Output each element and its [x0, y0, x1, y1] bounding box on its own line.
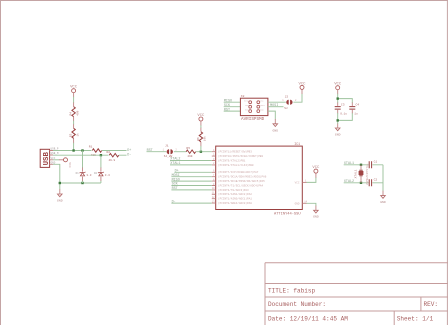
svg-text:499: 499	[187, 155, 192, 158]
svg-text:(PCINT9/XTAL2)PB1: (PCINT9/XTAL2)PB1	[218, 158, 246, 162]
node junction rail/D1	[81, 182, 83, 184]
svg-text:XTAL2: XTAL2	[344, 180, 354, 184]
svg-text:(PCINT8/XTAL1/CLKI)PB0: (PCINT8/XTAL1/CLKI)PB0	[218, 163, 254, 167]
svg-text:MISO: MISO	[172, 178, 180, 182]
wire R5 to IC pin 4	[196, 151, 212, 153]
wire USB GND down	[53, 164, 60, 189]
svg-text:0.1u: 0.1u	[340, 112, 347, 115]
svg-text:XTAL2: XTAL2	[170, 158, 180, 162]
svg-text:(PCINT6/OC1A/SDA/MOSI/ADC6)PA6: (PCINT6/OC1A/SDA/MOSI/ADC6)PA6	[218, 175, 267, 179]
svg-text:SJ: SJ	[284, 107, 288, 110]
node junction xtal top	[360, 164, 362, 166]
svg-text:R6: R6	[197, 137, 200, 141]
jumper J2	[282, 95, 297, 110]
supply VCC (caps)	[334, 83, 342, 90]
resistor R6	[197, 132, 207, 142]
svg-text:VCC: VCC	[260, 100, 264, 103]
svg-text:R3: R3	[70, 133, 73, 137]
capacitor C2	[369, 178, 378, 186]
supply VCC (USB pin 3)	[53, 158, 72, 168]
net label MISO + wire	[171, 178, 211, 182]
wire J2 to VCC	[293, 94, 302, 103]
header X2 AVRISPSMD	[240, 95, 268, 122]
node junction xtal bottom	[360, 182, 362, 184]
USB connector X1	[40, 149, 51, 167]
op IC1 box	[216, 142, 303, 216]
svg-text:TITLE: fabisp: TITLE: fabisp	[268, 287, 316, 294]
svg-text:D-: D-	[127, 153, 131, 157]
svg-text:(PCINT3/T0/ADC3)PA3: (PCINT3/T0/ADC3)PA3	[218, 188, 249, 192]
svg-text:2: 2	[295, 99, 297, 102]
svg-text:GND: GND	[260, 108, 264, 111]
svg-text:(PCINT11/RESET/DW)PB3: (PCINT11/RESET/DW)PB3	[218, 150, 252, 154]
svg-text:GND: GND	[273, 128, 279, 132]
svg-text:49.9: 49.9	[109, 159, 116, 162]
resistor R5	[186, 147, 195, 158]
svg-text:MOSI: MOSI	[270, 104, 278, 108]
capacitor C4	[349, 104, 360, 116]
svg-text:1k: 1k	[75, 133, 79, 137]
svg-text:(PCINT1/AIN0/ADC1)PA1: (PCINT1/AIN0/ADC1)PA1	[218, 197, 252, 201]
wire ground rail	[60, 182, 101, 184]
svg-text:C4: C4	[356, 104, 360, 107]
svg-text:(PCINT0/AREF/ADC0)PA0: (PCINT0/AREF/ADC0)PA0	[218, 201, 252, 205]
svg-text:(PCINT2/AIN1/ADC2)PA2: (PCINT2/AIN1/ADC2)PA2	[218, 192, 252, 196]
wire D2 branch	[100, 155, 102, 183]
net label XTAL2 + wire	[170, 158, 212, 162]
svg-text:10k: 10k	[203, 136, 207, 141]
net label XTAL1 + wire	[170, 162, 212, 166]
wire USB_P net	[53, 150, 127, 152]
svg-text:(PCINT5/OC1B/MISO/DO/ADC5)PA5: (PCINT5/OC1B/MISO/DO/ADC5)PA5	[218, 179, 265, 183]
svg-text:Document Number:: Document Number:	[268, 301, 326, 308]
wire D1 branch	[82, 151, 84, 184]
crystal Q1 20MHz	[354, 163, 369, 185]
svg-text:R5: R5	[186, 147, 190, 150]
node junction R3/USB_P	[72, 149, 74, 151]
wire RST to J1	[147, 151, 167, 153]
net label SCK + wire	[224, 104, 241, 108]
zener diode D2 3.3	[94, 172, 110, 178]
wire header to J2	[268, 101, 286, 103]
net label D+ + wire	[174, 170, 211, 174]
ground GND (caps)	[335, 128, 341, 137]
wire header GND	[268, 111, 275, 119]
svg-text:ATTINY44-SSU: ATTINY44-SSU	[274, 212, 301, 216]
ground GND (header)	[273, 124, 279, 133]
svg-text:MISO: MISO	[224, 99, 232, 103]
net label MOSI + wire	[171, 174, 211, 178]
resistor R1	[89, 146, 102, 158]
svg-text:REV:: REV:	[424, 301, 439, 308]
svg-text:SCK: SCK	[172, 183, 179, 187]
svg-text:C2: C2	[374, 178, 378, 181]
ground GND (USB)	[57, 194, 63, 203]
capacitor C3	[334, 104, 347, 116]
net label MOSI + wire	[268, 104, 284, 108]
svg-text:1: 1	[163, 149, 165, 152]
ground GND (xtal)	[380, 196, 386, 205]
node junction top	[337, 97, 339, 99]
wire C4 branch	[338, 99, 353, 121]
net label MISO + wire	[224, 99, 241, 103]
svg-text:2: 2	[175, 148, 177, 151]
svg-text:VCC: VCC	[295, 181, 300, 184]
wire J1 to R5	[174, 151, 186, 153]
IC1 right pin 1 VCC	[302, 166, 320, 183]
IC1 pin function labels	[218, 150, 300, 206]
net label SCK + wire	[171, 183, 211, 187]
node junction rail/GND	[59, 182, 61, 184]
wire USB_M net	[53, 154, 127, 156]
net label RST + wire	[224, 108, 241, 112]
USB pin stubs	[50, 148, 59, 165]
wire VCC to R4 to R3 to USB_P net	[73, 93, 75, 144]
resistor R4	[70, 107, 80, 117]
svg-text:GND: GND	[57, 199, 63, 203]
node junction R6/RST	[200, 151, 202, 153]
svg-text:J1: J1	[165, 145, 169, 148]
node junction D1/USB_P	[81, 149, 83, 151]
IC1 right pin 14 GND	[302, 201, 319, 219]
svg-text:MOSI: MOSI	[260, 104, 265, 107]
svg-text:Date: 12/19/11 4:45 AM: Date: 12/19/11 4:45 AM	[268, 315, 348, 322]
supply VCC (R6 top)	[197, 114, 205, 121]
svg-text:D1: D1	[76, 172, 80, 175]
svg-text:SCK: SCK	[224, 104, 231, 108]
svg-text:3.3: 3.3	[105, 174, 110, 177]
svg-text:VCC: VCC	[68, 162, 72, 168]
svg-text:Sheet: 1/1: Sheet: 1/1	[397, 315, 434, 322]
svg-text:R4: R4	[70, 112, 73, 116]
svg-text:C3: C3	[341, 104, 345, 107]
svg-text:1u: 1u	[354, 112, 358, 115]
svg-text:IC1: IC1	[294, 142, 300, 146]
net label XTAL1 + wire	[344, 162, 383, 166]
net label D- + wire	[171, 200, 211, 204]
IC1 left pin stubs	[212, 149, 216, 203]
svg-text:D2: D2	[94, 172, 98, 175]
svg-text:XTAL1: XTAL1	[354, 169, 357, 178]
supply VCC (J2)	[298, 82, 306, 89]
svg-text:D-: D-	[172, 200, 176, 204]
svg-text:R1: R1	[89, 146, 93, 149]
svg-text:XTAL1: XTAL1	[344, 162, 354, 166]
svg-text:3.3: 3.3	[86, 174, 91, 177]
wire VCC down through caps to GND	[337, 90, 339, 128]
svg-text:GND: GND	[380, 200, 386, 204]
svg-text:X2: X2	[241, 95, 245, 98]
svg-text:GND: GND	[295, 202, 300, 205]
wire R6 vertical	[200, 121, 202, 146]
net label XTAL2 + wire	[344, 180, 383, 184]
svg-text:499: 499	[76, 110, 79, 115]
zener diode D1 3.3	[76, 172, 92, 178]
svg-text:R2: R2	[107, 151, 111, 154]
svg-text:(PCINT7/ICP/OC0B/ADC7)PA7: (PCINT7/ICP/OC0B/ADC7)PA7	[218, 170, 259, 174]
wire xtal gnd	[382, 165, 384, 191]
svg-text:GND: GND	[335, 133, 341, 137]
node junction bottom	[337, 119, 339, 121]
resistor R3	[70, 128, 80, 138]
svg-text:AVRISPSMD: AVRISPSMD	[241, 117, 265, 122]
svg-text:D+: D+	[127, 149, 131, 153]
net label RST + wire	[171, 187, 211, 191]
svg-text:J2: J2	[285, 95, 289, 98]
svg-text:(PCINT4/T1/SCL/USCK/ADC4)PA4: (PCINT4/T1/SCL/USCK/ADC4)PA4	[218, 183, 264, 187]
svg-text:XTAL1: XTAL1	[170, 162, 180, 166]
svg-text:RST: RST	[147, 149, 153, 153]
svg-text:C1: C1	[374, 160, 378, 163]
svg-text:RST: RST	[224, 108, 230, 112]
svg-text:(PCINT10/INT0/OC0A/CKOUT)PB2: (PCINT10/INT0/OC0A/CKOUT)PB2	[218, 154, 264, 158]
svg-text:MOSI: MOSI	[172, 174, 180, 178]
jumper J1	[163, 145, 178, 159]
svg-text:D+: D+	[175, 170, 179, 174]
svg-text:RST: RST	[172, 187, 178, 191]
svg-text:VCC: VCC	[312, 166, 320, 170]
capacitor C1	[369, 160, 378, 168]
supply VCC (top of R4)	[70, 86, 78, 93]
node junction D2/USB_M	[100, 154, 102, 156]
svg-text:GND: GND	[313, 215, 319, 219]
resistor R2	[107, 151, 120, 162]
